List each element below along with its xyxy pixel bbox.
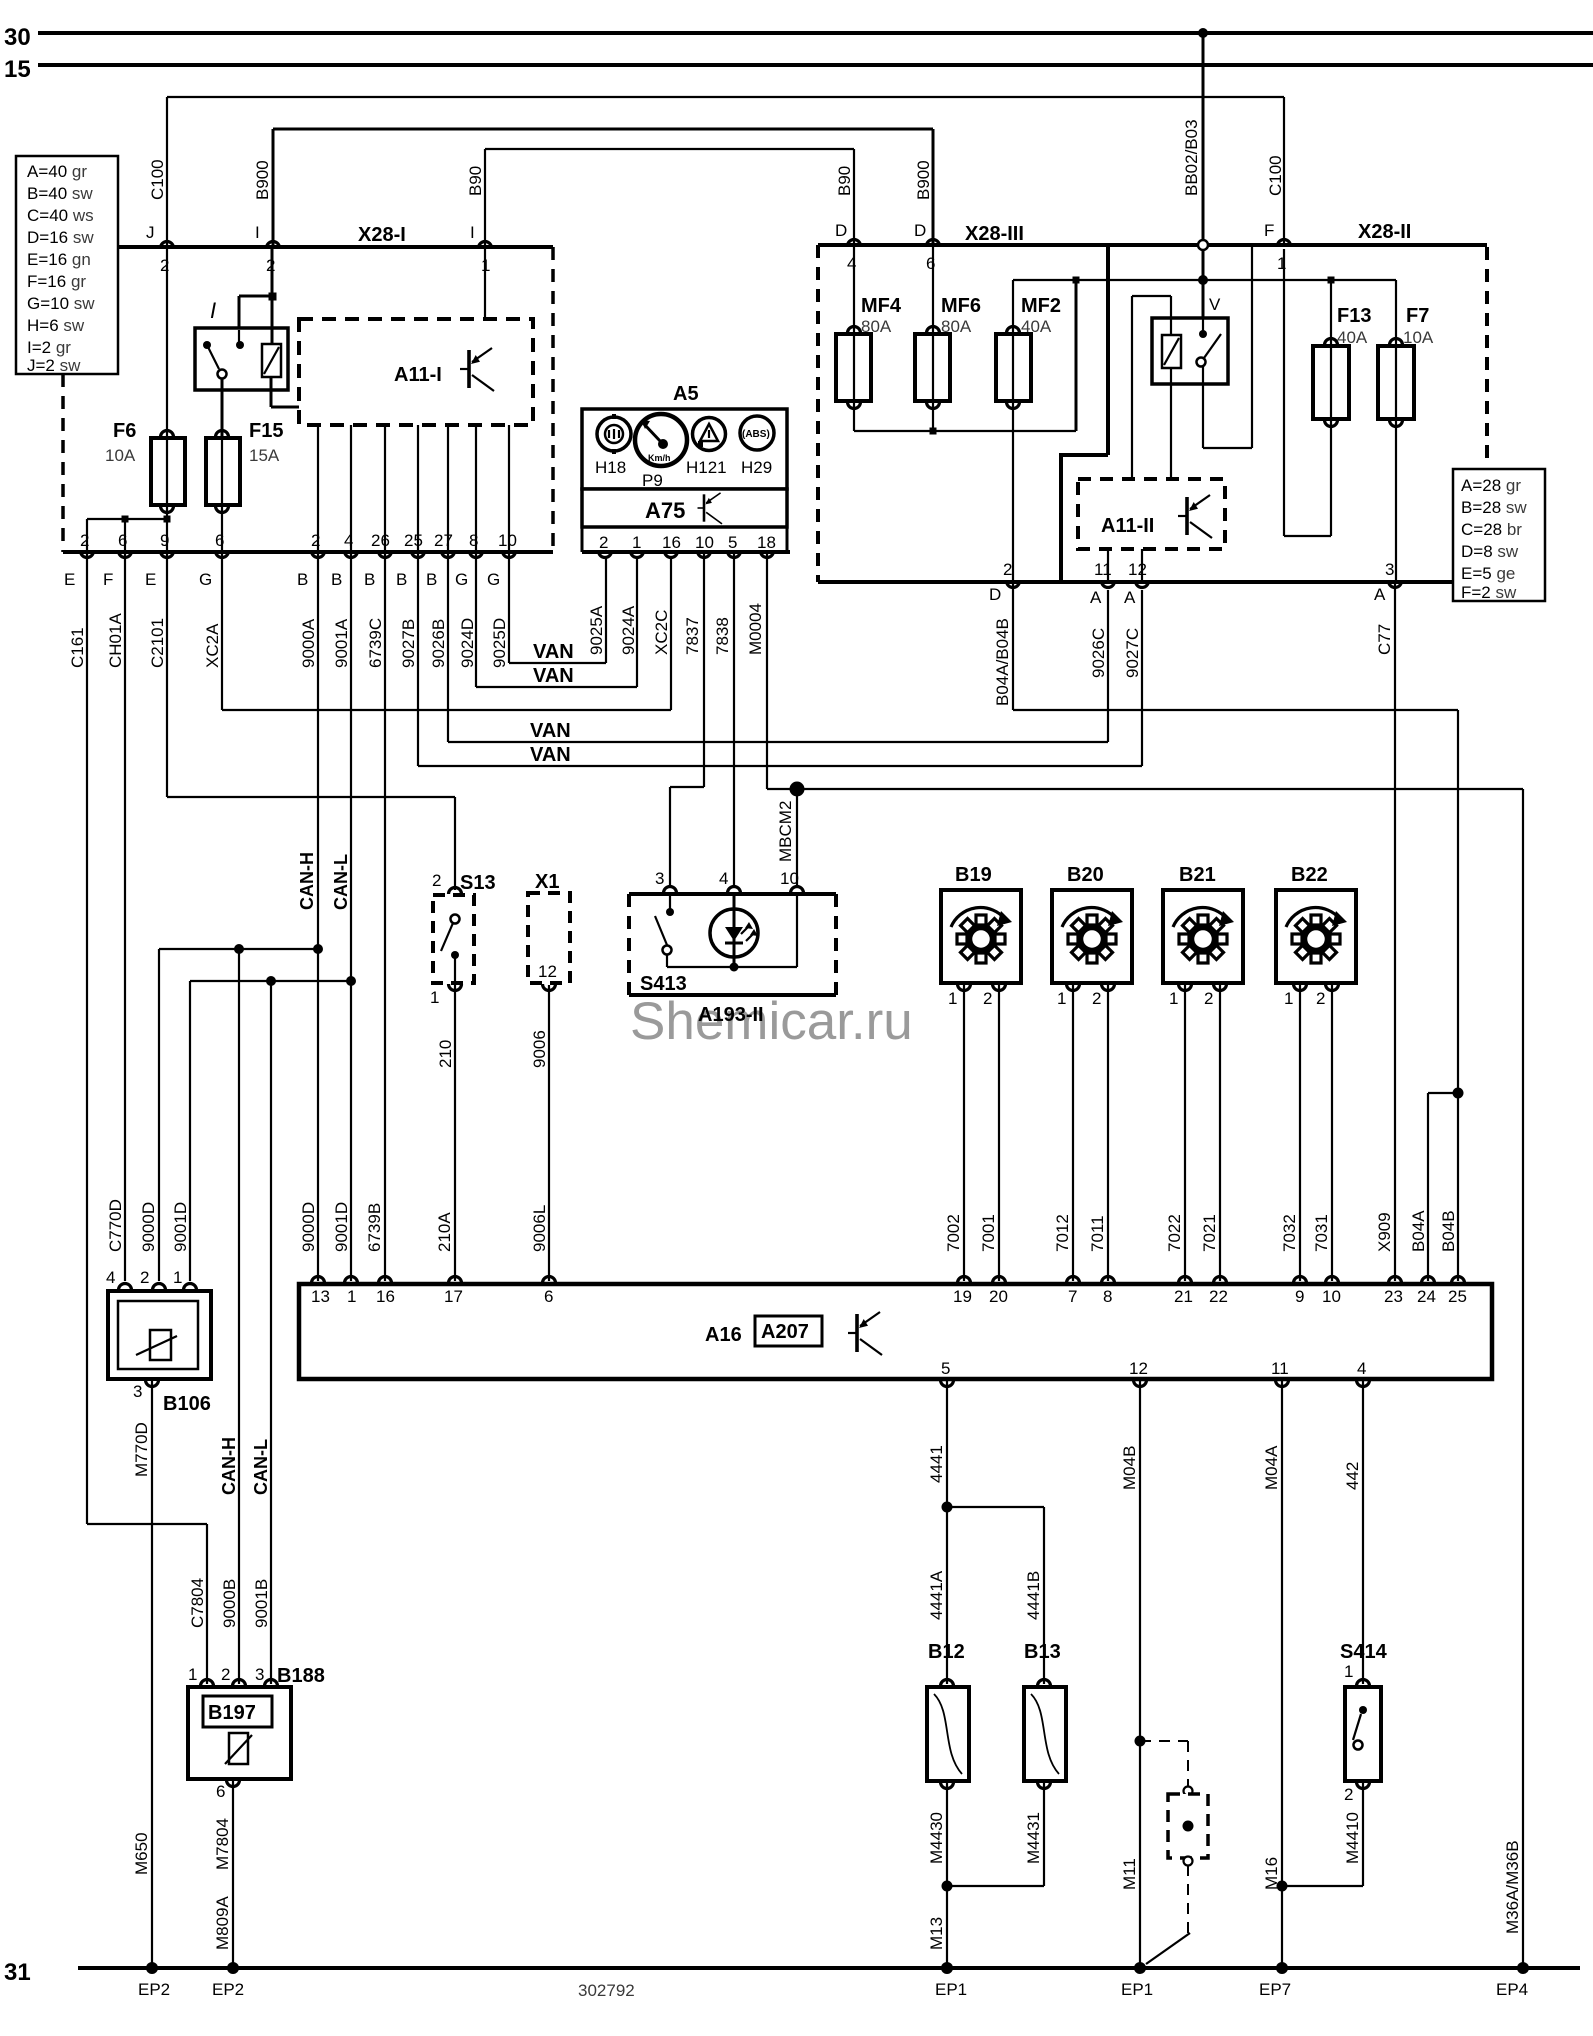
svg-text:A: A — [1090, 588, 1102, 607]
svg-text:C=40 ws: C=40 ws — [27, 206, 94, 225]
A11-I output wires to X28-I bottom pins — [318, 425, 509, 552]
svg-text:10: 10 — [695, 533, 714, 552]
svg-text:MF2: MF2 — [1021, 295, 1061, 317]
svg-text:1: 1 — [173, 1268, 182, 1287]
svg-text:EP2: EP2 — [138, 1980, 170, 1999]
svg-text:G: G — [455, 570, 468, 589]
wire M0004 A5 pin18 to junction and A193-II pin10 MBCM2 — [767, 552, 1523, 888]
svg-text:9025D: 9025D — [490, 618, 509, 668]
svg-text:X28-II: X28-II — [1358, 221, 1411, 243]
svg-text:9001D: 9001D — [171, 1202, 190, 1252]
svg-text:2: 2 — [1344, 1785, 1353, 1804]
svg-text:A193-II: A193-II — [698, 1004, 764, 1026]
svg-text:2: 2 — [221, 1665, 230, 1684]
svg-text:9027C: 9027C — [1123, 628, 1142, 678]
svg-text:12: 12 — [1129, 1359, 1148, 1378]
svg-text:26: 26 — [371, 531, 390, 550]
svg-text:B900: B900 — [914, 160, 933, 200]
sensor B19 — [0, 0, 1021, 983]
svg-text:X28-III: X28-III — [965, 223, 1024, 245]
svg-text:4441B: 4441B — [1024, 1571, 1043, 1620]
fuse F15 — [206, 420, 283, 552]
svg-text:F=16 gr: F=16 gr — [27, 272, 86, 291]
svg-text:CAN-L: CAN-L — [331, 854, 351, 910]
svg-text:B106: B106 — [163, 1393, 211, 1415]
svg-text:6: 6 — [216, 1782, 225, 1801]
svg-text:2: 2 — [983, 989, 992, 1008]
svg-text:B900: B900 — [253, 160, 272, 200]
X28 bottom rail — [818, 580, 1452, 584]
svg-text:7838: 7838 — [713, 617, 732, 655]
svg-text:9000B: 9000B — [220, 1579, 239, 1628]
transistor symbol A16 — [848, 1312, 882, 1355]
svg-text:2: 2 — [140, 1268, 149, 1287]
svg-text:80A: 80A — [941, 317, 972, 336]
svg-text:2: 2 — [599, 533, 608, 552]
svg-text:M04A: M04A — [1262, 1445, 1281, 1490]
svg-text:210A: 210A — [435, 1212, 454, 1252]
VAN link pin8 to A5 pin1 — [476, 552, 637, 687]
svg-text:9000D: 9000D — [139, 1202, 158, 1252]
svg-text:1: 1 — [948, 989, 957, 1008]
svg-text:S414: S414 — [1340, 1641, 1388, 1663]
svg-text:C100: C100 — [1266, 155, 1285, 196]
bus 15 — [38, 63, 1593, 67]
svg-text:2: 2 — [432, 871, 441, 890]
wire 9000A CAN-H X28-I pin2 down to A16 pin13 — [297, 552, 318, 1281]
svg-text:21: 21 — [1174, 1287, 1193, 1306]
connector X28-I — [63, 224, 553, 552]
relay coil — [262, 344, 281, 377]
svg-text:EP2: EP2 — [212, 1980, 244, 1999]
svg-text:7032: 7032 — [1280, 1214, 1299, 1252]
svg-text:7011: 7011 — [1088, 1215, 1107, 1252]
svg-text:25: 25 — [404, 531, 423, 550]
X28-I bottom bus — [63, 550, 553, 554]
svg-text:J: J — [146, 223, 155, 242]
connector X1 — [528, 871, 570, 1281]
svg-text:X909: X909 — [1375, 1212, 1394, 1252]
svg-text:4: 4 — [106, 1268, 115, 1287]
svg-text:7012: 7012 — [1053, 1214, 1072, 1252]
svg-text:7002: 7002 — [944, 1214, 963, 1252]
svg-text:9001B: 9001B — [252, 1579, 271, 1628]
svg-text:V: V — [1209, 295, 1221, 314]
svg-text:P9: P9 — [642, 471, 663, 490]
svg-text:F13: F13 — [1337, 305, 1371, 327]
V output up to bus — [1202, 366, 1204, 448]
svg-text:XC2C: XC2C — [652, 610, 671, 655]
svg-text:7022: 7022 — [1165, 1214, 1184, 1252]
speedometer P9 — [635, 414, 687, 490]
svg-text:VAN: VAN — [533, 641, 574, 663]
svg-text:D: D — [989, 585, 1001, 604]
svg-text:4441: 4441 — [927, 1445, 946, 1483]
svg-text:C770D: C770D — [106, 1199, 125, 1252]
svg-text:A16: A16 — [705, 1324, 742, 1346]
svg-text:M770D: M770D — [132, 1422, 151, 1477]
svg-text:5: 5 — [941, 1359, 950, 1378]
svg-text:9001D: 9001D — [332, 1202, 351, 1252]
svg-text:40A: 40A — [1021, 317, 1052, 336]
svg-text:B12: B12 — [928, 1641, 965, 1663]
svg-text:B19: B19 — [955, 864, 992, 886]
switch S413 — [669, 894, 671, 912]
connector X28-III / X28-II — [818, 221, 1487, 582]
svg-text:1: 1 — [1057, 989, 1066, 1008]
svg-text:6739C: 6739C — [366, 618, 385, 668]
svg-text:9026B: 9026B — [429, 619, 448, 668]
wire 442 from A16 pin4 to S414 — [1343, 1381, 1363, 1684]
svg-text:M4430: M4430 — [927, 1812, 946, 1864]
wire M04B/M11 from A16 pin12 to EP1 — [1120, 1381, 1153, 1999]
relay V — [1132, 247, 1252, 479]
svg-text:E: E — [64, 570, 75, 589]
svg-text:M04B: M04B — [1120, 1446, 1139, 1490]
svg-text:M4431: M4431 — [1024, 1812, 1043, 1864]
svg-text:VAN: VAN — [530, 720, 571, 742]
svg-text:B197: B197 — [208, 1702, 256, 1724]
wire B04A/B04B X28-III pin2 to A16 pins 24/25 — [993, 582, 1464, 1281]
svg-text:MF6: MF6 — [941, 295, 981, 317]
bus 31 — [78, 1966, 1580, 1970]
sender B106 — [106, 1268, 211, 1999]
wire B90 from X28-I pin I1 up and right to X28-III pin D4 — [485, 149, 854, 246]
svg-text:9025A: 9025A — [587, 605, 606, 655]
svg-text:1: 1 — [632, 533, 641, 552]
svg-text:4441A: 4441A — [927, 1570, 946, 1620]
sensor B22 — [0, 0, 1356, 983]
X28-I top bus — [118, 245, 553, 249]
svg-text:J=2 sw: J=2 sw — [27, 356, 81, 375]
X28-I top pin J2 — [146, 223, 174, 275]
CAN-L branch to B106 pin1 and B188 pin3 — [171, 976, 356, 1684]
wire CH01A/C770D X28-I pin6 down to B106 pin4 — [106, 552, 125, 1281]
svg-text:M7804: M7804 — [213, 1818, 232, 1870]
svg-text:B04B: B04B — [1439, 1210, 1458, 1252]
dashed actuator switch near M11 — [1140, 1741, 1208, 1964]
svg-text:BB02/B03: BB02/B03 — [1182, 119, 1201, 196]
svg-text:12: 12 — [538, 962, 557, 981]
svg-text:7837: 7837 — [683, 617, 702, 655]
svg-text:B=28 sw: B=28 sw — [1461, 498, 1527, 517]
svg-text:302792: 302792 — [578, 1981, 635, 2000]
svg-text:Shemicar.ru: Shemicar.ru — [630, 992, 913, 1051]
svg-text:M13: M13 — [927, 1917, 946, 1950]
svg-text:2: 2 — [1204, 989, 1213, 1008]
svg-text:B: B — [331, 570, 342, 589]
svg-text:1: 1 — [347, 1287, 356, 1306]
svg-text:4: 4 — [719, 869, 728, 888]
svg-text:C7804: C7804 — [188, 1578, 207, 1628]
wire 4441 from A16 pin5 — [927, 1381, 1044, 1684]
megafuse MF4 — [836, 245, 902, 431]
svg-text:EP1: EP1 — [935, 1980, 967, 1999]
svg-text:9001A: 9001A — [332, 618, 351, 668]
VAN link pin25 9027B to X28-III pin12 9027C — [418, 552, 1142, 766]
C100 feed loop to F13 bottom — [1284, 249, 1331, 536]
svg-text:CAN-H: CAN-H — [297, 852, 317, 910]
svg-text:4: 4 — [1357, 1359, 1366, 1378]
fuse F6 — [105, 247, 185, 552]
svg-text:B: B — [426, 570, 437, 589]
svg-text:D: D — [914, 221, 926, 240]
MF4/MF6 bottom link rising to feed line — [854, 280, 1076, 435]
svg-text:MF4: MF4 — [861, 295, 902, 317]
svg-text:16: 16 — [376, 1287, 395, 1306]
wire C77/X909 X28-II pin3 to A16 pin23 — [1375, 582, 1395, 1281]
svg-text:F6: F6 — [113, 420, 136, 442]
bus 30 — [38, 31, 1593, 35]
svg-text:210: 210 — [436, 1040, 455, 1068]
svg-text:H29: H29 — [741, 458, 772, 477]
A16 top pins — [312, 1277, 325, 1284]
svg-text:A207: A207 — [761, 1321, 809, 1343]
ECU A11-I dashed box — [299, 319, 533, 425]
svg-text:B90: B90 — [835, 166, 854, 196]
fuse F7 — [1378, 280, 1434, 582]
wire C2101 X28-I pin9 down to S13 pin2 — [167, 552, 455, 890]
wire 7838 A5 pin5 to A193-II pin4 — [733, 552, 735, 888]
svg-text:E: E — [145, 570, 156, 589]
svg-text:9027B: 9027B — [399, 619, 418, 668]
svg-text:6: 6 — [544, 1287, 553, 1306]
megafuse MF6 — [915, 245, 981, 431]
svg-text:B22: B22 — [1291, 864, 1328, 886]
wire B900 from X28-I pin I2 up and right to X28-III pin D6 — [273, 129, 933, 246]
svg-text:C161: C161 — [68, 627, 87, 668]
svg-text:B188: B188 — [277, 1665, 325, 1687]
svg-text:B: B — [364, 570, 375, 589]
svg-text:MBCM2: MBCM2 — [776, 801, 795, 862]
wire M36A/M36B to EP4 — [1496, 789, 1529, 1999]
wire 6739C X28-I pin26 down to A16 pin16 — [365, 552, 385, 1281]
svg-text:A11-II: A11-II — [1101, 515, 1154, 537]
left legend box — [16, 156, 118, 375]
svg-text:S413: S413 — [640, 973, 687, 995]
X28-II right dashed edge — [1485, 247, 1489, 458]
svg-text:I: I — [255, 223, 260, 242]
svg-text:7021: 7021 — [1200, 1214, 1219, 1252]
X28-I right dashed edge — [551, 247, 555, 552]
svg-text:M0004: M0004 — [746, 603, 765, 655]
wire BB02/B03 from bus 30 — [1182, 28, 1208, 318]
svg-text:F15: F15 — [249, 420, 283, 442]
svg-text:I=2 gr: I=2 gr — [27, 338, 71, 357]
svg-text:9024D: 9024D — [458, 618, 477, 668]
svg-text:27: 27 — [434, 531, 453, 550]
svg-text:16: 16 — [662, 533, 681, 552]
svg-text:1: 1 — [430, 988, 439, 1007]
svg-text:18: 18 — [757, 533, 776, 552]
svg-text:10: 10 — [1322, 1287, 1341, 1306]
lamp — [733, 894, 736, 967]
svg-text:M809A: M809A — [213, 1895, 232, 1950]
svg-text:9000D: 9000D — [299, 1202, 318, 1252]
svg-text:20: 20 — [989, 1287, 1008, 1306]
svg-text:1: 1 — [188, 1665, 197, 1684]
svg-text:F: F — [103, 570, 113, 589]
VAN link pin10 to A5 pin2 — [509, 552, 606, 663]
ECU A11-II dashed box — [1078, 479, 1225, 582]
svg-text:2: 2 — [1092, 989, 1101, 1008]
X28 top pins — [835, 221, 1291, 273]
svg-text:23: 23 — [1384, 1287, 1403, 1306]
svg-text:B: B — [396, 570, 407, 589]
svg-text:B04A: B04A — [1409, 1210, 1428, 1252]
sensor B188 / B197 — [188, 1665, 325, 1999]
svg-text:12: 12 — [1128, 560, 1147, 579]
X28 top bus — [818, 243, 1487, 247]
svg-text:X28-I: X28-I — [358, 224, 406, 246]
warning lamp H121 — [686, 418, 727, 478]
svg-text:3: 3 — [133, 1382, 142, 1401]
wire C100 from X28-I pin J2 up and right to X28-II pin F1 — [167, 97, 1284, 246]
V coil wires to A11-II — [1170, 296, 1172, 335]
right legend box — [1453, 469, 1545, 602]
X28-I top pin I2 — [255, 223, 280, 275]
megafuse MF2 — [996, 280, 1061, 582]
svg-text:VAN: VAN — [533, 665, 574, 687]
svg-text:9000A: 9000A — [299, 618, 318, 668]
svg-text:I: I — [210, 298, 216, 323]
svg-text:G=10 sw: G=10 sw — [27, 294, 95, 313]
svg-text:3: 3 — [255, 1665, 264, 1684]
A5 pin row — [581, 527, 584, 552]
svg-text:1: 1 — [1284, 989, 1293, 1008]
A75 box — [582, 489, 787, 527]
sensor B21 — [0, 0, 1243, 983]
svg-text:I: I — [470, 223, 475, 242]
svg-text:EP7: EP7 — [1259, 1980, 1291, 1999]
svg-text:7031: 7031 — [1312, 1214, 1331, 1252]
svg-text:B: B — [297, 570, 308, 589]
relay in X28-I — [195, 247, 299, 436]
indicator lamp H18 — [595, 414, 631, 477]
svg-text:9006L: 9006L — [530, 1205, 549, 1252]
svg-text:H=6 sw: H=6 sw — [27, 316, 85, 335]
svg-text:CH01A: CH01A — [106, 613, 125, 668]
thick wire bus to bottom rail — [1059, 245, 1108, 582]
svg-text:442: 442 — [1343, 1462, 1362, 1490]
sensor B13 — [947, 1641, 1066, 1886]
svg-text:M36A/M36B: M36A/M36B — [1503, 1840, 1522, 1934]
svg-text:X1: X1 — [535, 871, 559, 893]
sensor B12 — [927, 1641, 969, 1999]
svg-text:C=28 br: C=28 br — [1461, 520, 1522, 539]
svg-text:Km/h: Km/h — [648, 453, 671, 463]
svg-text:19: 19 — [953, 1287, 972, 1306]
svg-text:30: 30 — [4, 24, 31, 51]
svg-text:EP4: EP4 — [1496, 1980, 1528, 1999]
instrument cluster A5 — [582, 383, 790, 558]
svg-text:H18: H18 — [595, 458, 626, 477]
svg-text:9024A: 9024A — [619, 605, 638, 655]
ABS lamp H29 — [740, 416, 774, 477]
svg-text:F7: F7 — [1406, 305, 1429, 327]
svg-text:EP1: EP1 — [1121, 1980, 1153, 1999]
svg-text:11: 11 — [1271, 1359, 1289, 1378]
svg-text:22: 22 — [1209, 1287, 1228, 1306]
X28-I left dashed edge — [61, 374, 65, 552]
svg-text:CAN-H: CAN-H — [219, 1437, 239, 1495]
svg-text:E=5 ge: E=5 ge — [1461, 564, 1515, 583]
svg-text:17: 17 — [444, 1287, 463, 1306]
switch S414 — [1282, 1641, 1388, 1886]
svg-text:B04A/B04B: B04A/B04B — [993, 618, 1012, 706]
svg-text:7001: 7001 — [979, 1214, 998, 1252]
CAN-H branch to B106 pin2 and B188 pin2 — [139, 944, 323, 1684]
svg-text:9026C: 9026C — [1089, 628, 1108, 678]
wire 9001A CAN-L X28-I pin4 down to A16 pin1 — [331, 552, 351, 1281]
svg-text:B=40 sw: B=40 sw — [27, 184, 93, 203]
transistor symbol A75 — [698, 493, 722, 524]
svg-text:9: 9 — [1295, 1287, 1304, 1306]
svg-text:80A: 80A — [861, 317, 892, 336]
svg-text:G: G — [487, 570, 500, 589]
svg-text:15: 15 — [4, 56, 31, 83]
wire 7837 A5 pin10 to A193-II pin3 — [670, 552, 704, 888]
svg-text:A=40 gr: A=40 gr — [27, 162, 87, 181]
svg-text:2: 2 — [1003, 560, 1012, 579]
svg-text:8: 8 — [1103, 1287, 1112, 1306]
X28 bottom pins — [989, 560, 1402, 607]
svg-text:D=16 sw: D=16 sw — [27, 228, 94, 247]
svg-text:A: A — [1124, 588, 1136, 607]
svg-text:15A: 15A — [249, 446, 280, 465]
svg-text:A=28 gr: A=28 gr — [1461, 476, 1521, 495]
ECU A16 — [299, 1277, 1492, 1387]
svg-text:6739B: 6739B — [365, 1203, 384, 1252]
svg-text:F=2 sw: F=2 sw — [1461, 583, 1517, 602]
VAN link pin27 9026B to X28-III pin11 9026C — [448, 552, 1108, 742]
svg-text:25: 25 — [1448, 1287, 1467, 1306]
wire C161 X28-I pin2 down to B188 pin1 — [87, 552, 207, 1684]
svg-text:M11: M11 — [1120, 1858, 1139, 1890]
svg-text:D=8 sw: D=8 sw — [1461, 542, 1519, 561]
svg-text:31: 31 — [4, 1959, 31, 1986]
X28-III left dashed edge — [816, 245, 820, 582]
svg-text:C2101: C2101 — [148, 618, 167, 668]
svg-text:A11-I: A11-I — [394, 364, 442, 386]
svg-text:B13: B13 — [1024, 1641, 1061, 1663]
svg-text:B90: B90 — [466, 166, 485, 196]
transistor symbol A11-I — [460, 348, 494, 391]
svg-text:A75: A75 — [645, 498, 685, 523]
junction link pins 2-6-9 — [87, 516, 171, 553]
svg-text:3: 3 — [655, 869, 664, 888]
svg-text:E=16 gn: E=16 gn — [27, 250, 91, 269]
svg-text:D: D — [835, 221, 847, 240]
sensor B20 — [0, 0, 1132, 983]
svg-text:(ABS): (ABS) — [742, 429, 770, 440]
svg-text:7: 7 — [1068, 1287, 1077, 1306]
svg-text:2: 2 — [1316, 989, 1325, 1008]
svg-text:24: 24 — [1417, 1287, 1436, 1306]
wire pin I1 to A11-I top — [484, 249, 486, 319]
svg-text:1: 1 — [1344, 1662, 1353, 1681]
svg-text:B21: B21 — [1179, 864, 1216, 886]
svg-text:CAN-L: CAN-L — [251, 1439, 271, 1495]
svg-text:10A: 10A — [1403, 328, 1434, 347]
svg-text:F: F — [1264, 221, 1274, 240]
svg-text:M4410: M4410 — [1343, 1812, 1362, 1864]
switch S13 — [430, 871, 496, 1281]
svg-text:VAN: VAN — [530, 744, 571, 766]
X28-I bottom pins with numbers above and letters below — [64, 531, 517, 589]
svg-text:3: 3 — [1385, 560, 1394, 579]
fuse F13 — [1313, 280, 1371, 536]
